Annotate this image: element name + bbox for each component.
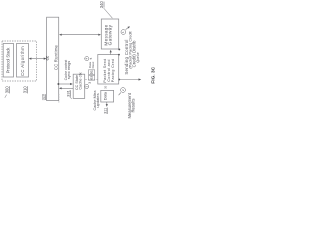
svg-text:Gateway: Gateway xyxy=(108,24,113,45)
circled step 4 xyxy=(85,57,89,61)
svg-text:340: 340 xyxy=(99,1,104,9)
underline 331 xyxy=(70,90,72,97)
box Protocol Stack 300 xyxy=(3,44,13,78)
box CC Runtime 320 xyxy=(47,17,59,100)
short dashed stub xyxy=(58,94,60,103)
svg-text:CC Runtime: CC Runtime xyxy=(54,44,59,70)
svg-text:300: 300 xyxy=(5,86,10,94)
wire double arrow CC Algorithm to CC Runtime xyxy=(30,58,46,60)
tick beside circle 1 xyxy=(126,27,129,30)
leader 340 xyxy=(104,8,113,18)
wire double arrow CC Runtime to Message Gateway xyxy=(60,34,100,36)
svg-text:updates: updates xyxy=(95,93,100,107)
leader tick circle 2 xyxy=(119,93,121,96)
dashed wire State Cache to Sending Control xyxy=(85,79,97,81)
box CC Algorithm 310 xyxy=(17,44,29,78)
svg-text:320: 320 xyxy=(41,94,45,100)
mini box A xyxy=(89,70,95,75)
svg-text:311: 311 xyxy=(103,108,107,114)
arrow below Data box xyxy=(106,102,108,106)
box State Cache 331 xyxy=(73,74,85,98)
underline 311 xyxy=(106,108,108,115)
svg-text:CC Algorithm: CC Algorithm xyxy=(20,46,25,76)
dashed host box 310 xyxy=(2,41,37,81)
box Sending Control 337 xyxy=(98,55,119,85)
svg-text:CC: CC xyxy=(46,55,50,60)
leader 300 xyxy=(5,95,7,98)
svg-text:D2: D2 xyxy=(89,76,93,80)
box Data 317 xyxy=(101,90,114,102)
svg-text:3: 3 xyxy=(88,82,92,84)
svg-text:Pacing Cred: Pacing Cred xyxy=(111,59,115,83)
wire arrow CC Runtime to State Cache (down) xyxy=(57,83,59,85)
svg-text:Cache ctx: Cache ctx xyxy=(79,72,83,89)
underline 310 xyxy=(27,86,29,93)
svg-text:331: 331 xyxy=(66,89,71,96)
svg-text:Desc: Desc xyxy=(91,61,95,68)
svg-text:Queue: Queue xyxy=(136,52,140,62)
circled step 1 xyxy=(121,30,126,35)
circled step 3 xyxy=(85,84,89,88)
leader 331 xyxy=(70,97,72,99)
svg-text:Protocol Stack: Protocol Stack xyxy=(6,47,11,74)
svg-text:D1: D1 xyxy=(89,70,93,74)
mini box B xyxy=(89,75,95,80)
wire from Sending Control box right edge with end arrow xyxy=(118,79,120,81)
svg-text:FIG. 3C: FIG. 3C xyxy=(151,66,157,83)
svg-text:35: 35 xyxy=(104,85,108,89)
svg-text:sync msgs: sync msgs xyxy=(66,61,71,79)
underline 300 xyxy=(9,86,11,93)
wire arrow State Cache to CC Runtime (up) xyxy=(60,87,73,89)
svg-text:Data: Data xyxy=(104,91,108,100)
underline 320 xyxy=(44,94,46,100)
arrow Sending Control to Message Gateway xyxy=(110,51,112,55)
underline 340 xyxy=(103,2,105,8)
box Message Gateway 340 xyxy=(101,19,118,49)
junction dot lower box top right xyxy=(118,48,120,50)
circled step 2 xyxy=(121,88,126,93)
svg-text:310: 310 xyxy=(23,86,28,94)
svg-text:Results: Results xyxy=(131,99,136,113)
